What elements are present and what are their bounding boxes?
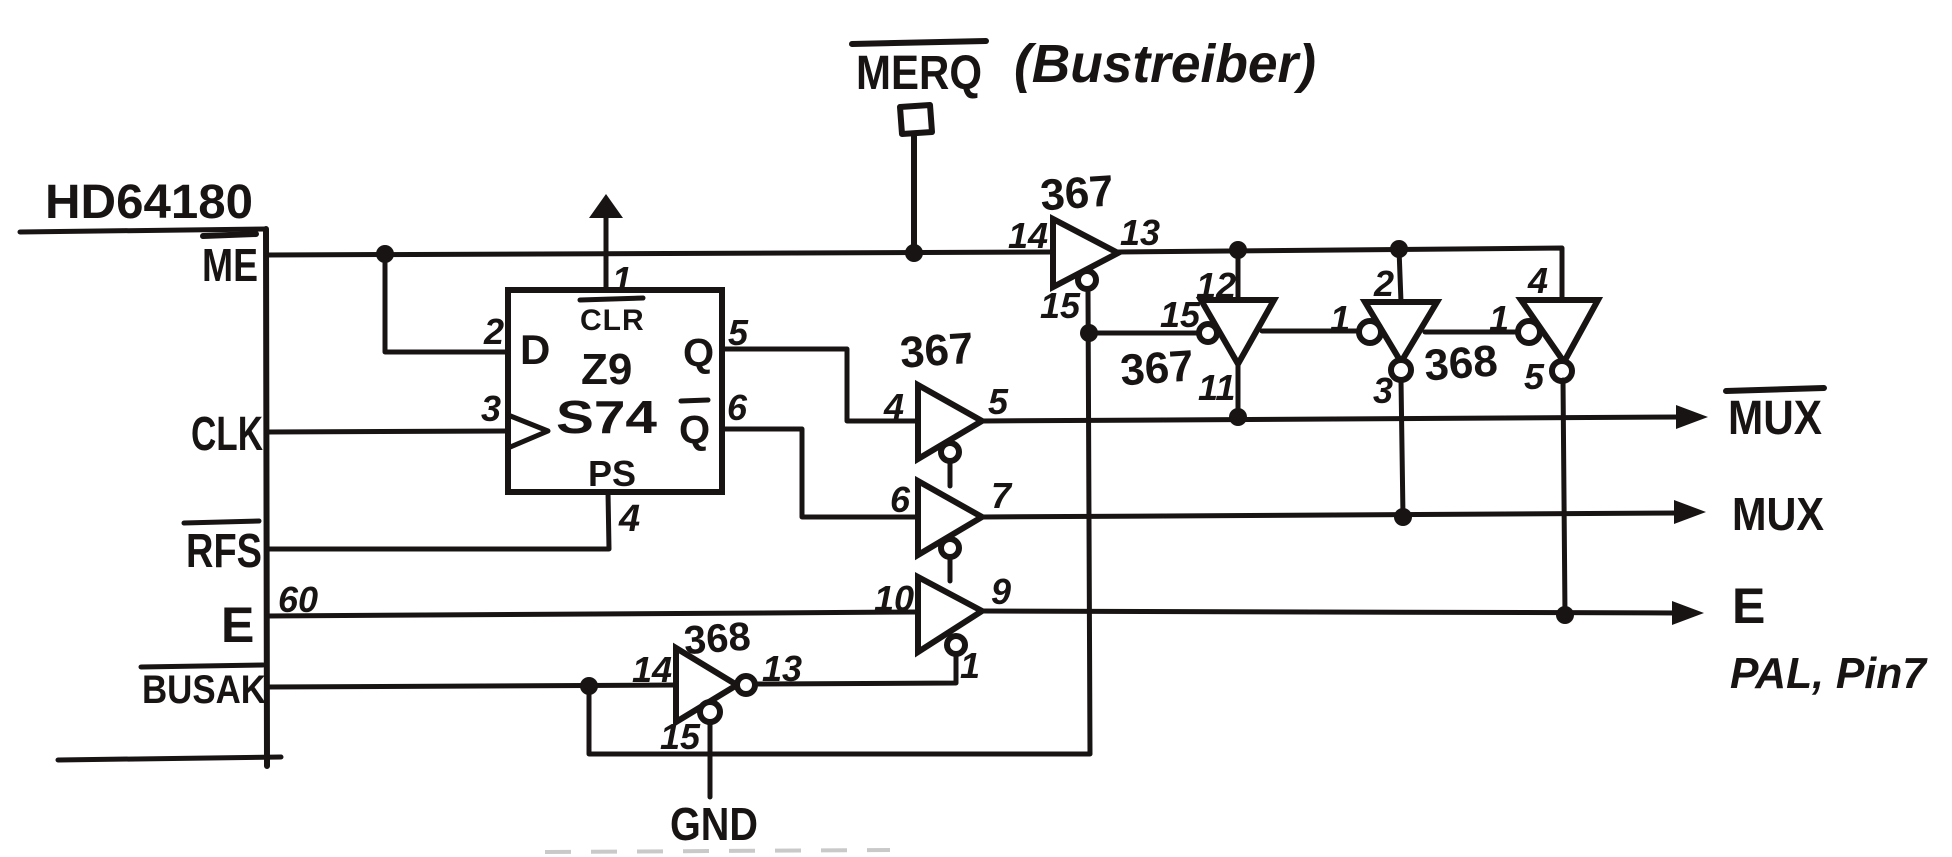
output bubble U4a: [737, 676, 755, 694]
svg-text:Q: Q: [679, 408, 710, 452]
wire net E from HD64180 pin60 to 367 pin10: [267, 612, 918, 616]
wire BUSAK overline: [141, 665, 263, 667]
svg-text:5: 5: [1524, 356, 1545, 397]
wire net MUX: [982, 513, 1680, 517]
svg-text:367: 367: [1119, 341, 1196, 395]
svg-text:1: 1: [1489, 298, 1509, 339]
svg-text:10: 10: [874, 578, 914, 619]
svg-text:CLR: CLR: [580, 304, 645, 337]
svg-text:E: E: [221, 597, 254, 653]
wire BUSAK enable loop to 367 pin15: [589, 290, 1090, 754]
wire stub to U3a pin12: [1236, 250, 1241, 300]
wire enable U3b to U3c: [1425, 330, 1519, 335]
junction enable vertical to down-buffer enables: [1080, 324, 1098, 342]
svg-text:GND: GND: [670, 798, 758, 850]
svg-text:14: 14: [1008, 215, 1048, 256]
svg-text:2: 2: [483, 311, 504, 352]
svg-text:BUSAK: BUSAK: [142, 668, 266, 712]
svg-text:ME: ME: [202, 239, 258, 291]
wire MUXbar overline: [1726, 388, 1824, 391]
arrowhead CLR up: [589, 194, 623, 218]
arrowhead E: [1672, 601, 1704, 625]
svg-text:MUX: MUX: [1728, 392, 1822, 445]
svg-text:S74: S74: [556, 391, 658, 443]
wire HD64180 underline (chip outline top): [20, 229, 266, 232]
wire U3c output to E net: [1563, 380, 1565, 615]
svg-text:13: 13: [1120, 212, 1160, 253]
wire chip outline bottom: [58, 757, 281, 760]
buffer U3b 368 pins 2-3 (down): [1365, 302, 1437, 362]
svg-text:6: 6: [727, 387, 748, 428]
junction U3a on MUXbar: [1229, 408, 1247, 426]
wire enable to 367 pin15 of U3a: [1089, 331, 1200, 336]
wire Z9 Q pin5 to 367 pin4: [722, 349, 918, 421]
enable bubble U2c: [947, 636, 965, 654]
enable bubble U3b: [1359, 321, 1381, 343]
buffer U4a 368 pins 14-13: [676, 648, 737, 722]
svg-text:Q: Q: [683, 331, 714, 375]
junction top bus to pin2: [1390, 240, 1408, 258]
arrowhead MUX: [1674, 500, 1706, 524]
wire CLR pin vertical with arrow: [604, 214, 609, 290]
svg-text:3: 3: [1373, 370, 1393, 411]
wire RFS overline: [184, 521, 259, 523]
svg-text:3: 3: [481, 388, 501, 429]
enable bubble U4a: [700, 702, 720, 722]
svg-text:15: 15: [1160, 294, 1201, 335]
wire U1a output bus (top): [1118, 248, 1562, 300]
svg-text:9: 9: [991, 571, 1011, 612]
junction top bus to pin12: [1229, 241, 1247, 259]
enable bubble U2a: [941, 443, 959, 461]
wire stub to U3b pin2: [1399, 249, 1401, 302]
svg-text:4: 4: [618, 498, 640, 540]
buffer U2a 367 pins 4-5: [918, 385, 982, 459]
svg-text:367: 367: [898, 324, 975, 378]
svg-text:Z9: Z9: [581, 345, 632, 394]
svg-text:5: 5: [988, 381, 1009, 422]
arrowhead MUXbar: [1676, 405, 1708, 429]
junction U3b on MUX: [1394, 508, 1412, 526]
junction ME to D branch: [376, 245, 394, 263]
wire 368 enable to GND: [708, 722, 713, 797]
svg-text:4: 4: [1527, 260, 1548, 301]
svg-text:D: D: [520, 326, 550, 373]
svg-text:PS: PS: [588, 453, 636, 494]
svg-text:368: 368: [1423, 336, 1500, 390]
enable bubble U3c: [1518, 321, 1540, 343]
buffer U2b 367 pins 6-7: [918, 481, 982, 555]
wire net MUXbar: [982, 417, 1682, 421]
svg-text:6: 6: [890, 479, 911, 520]
faint scan remnant bottom: [545, 850, 890, 852]
svg-text:1: 1: [960, 645, 980, 686]
wire net E: [982, 611, 1678, 613]
wire MERQ overline: [852, 41, 986, 44]
junction BUSAK enable branch: [580, 677, 598, 695]
buffer U2c 367 pins 10-9: [918, 577, 982, 652]
svg-text:1: 1: [612, 259, 632, 300]
buffer U1a 367 pins 14-13: [1053, 219, 1118, 287]
wire Q-bar overline: [681, 400, 708, 401]
svg-text:2: 2: [1373, 263, 1394, 304]
wire net RFS to Z9 PS pin4: [267, 492, 609, 549]
svg-text:RFS: RFS: [186, 525, 262, 578]
wire Z9 Qbar pin6 to 367 pin6: [722, 429, 918, 517]
wire chip outline left vertical: [266, 229, 267, 766]
enable bubble U1a: [1078, 271, 1096, 289]
svg-text:1: 1: [1330, 298, 1350, 339]
wire net ME from HD64180 to 367 pin14: [267, 252, 1053, 255]
svg-text:4: 4: [883, 386, 904, 427]
clock chevron Z9: [508, 415, 548, 448]
svg-text:E: E: [1732, 578, 1765, 634]
svg-text:(Bustreiber): (Bustreiber): [1014, 34, 1316, 94]
wire ME overline: [203, 234, 256, 236]
wire CLR overline: [580, 298, 643, 300]
wire enable U2a to U2b: [948, 461, 953, 486]
svg-text:PAL, Pin7: PAL, Pin7: [1730, 649, 1928, 698]
buffer U3c 368 pins 4-5 (down): [1521, 300, 1598, 362]
wire U3b output to MUX net: [1401, 380, 1403, 517]
svg-text:15: 15: [660, 716, 701, 757]
buffer U3a 367 pins 12-11 (down): [1201, 300, 1274, 364]
svg-text:11: 11: [1198, 367, 1235, 408]
enable bubble U2b: [941, 539, 959, 557]
wire enable U2b to U2c: [948, 557, 953, 581]
wire 368 output to 367 pin1 enable: [755, 654, 956, 684]
svg-text:367: 367: [1039, 166, 1116, 220]
junction U3c on E net: [1556, 606, 1574, 624]
output bubble U3c: [1552, 361, 1572, 381]
enable bubble U3a: [1199, 324, 1217, 342]
svg-text:MUX: MUX: [1732, 488, 1824, 540]
output bubble U3b: [1391, 360, 1411, 380]
wire enable U3a to U3b: [1262, 329, 1360, 334]
flip-flop Z9 S74 body: [508, 290, 722, 492]
svg-text:MERQ: MERQ: [856, 47, 982, 100]
svg-text:7: 7: [991, 475, 1013, 516]
wire MERQ stem: [911, 134, 917, 253]
svg-text:15: 15: [1040, 285, 1081, 326]
svg-text:14: 14: [632, 649, 672, 690]
wire net CLK to Z9 pin3: [267, 431, 508, 432]
wire branch ME to D input of Z9: [385, 254, 508, 352]
wire net BUSAK to 368 pin14: [267, 685, 676, 687]
connector MERQ terminal square: [900, 105, 932, 134]
junction MERQ on ME net: [905, 244, 923, 262]
svg-text:CLK: CLK: [191, 408, 263, 461]
wire U3a output to MUXbar net: [1236, 364, 1241, 417]
svg-text:HD64180: HD64180: [45, 176, 253, 229]
